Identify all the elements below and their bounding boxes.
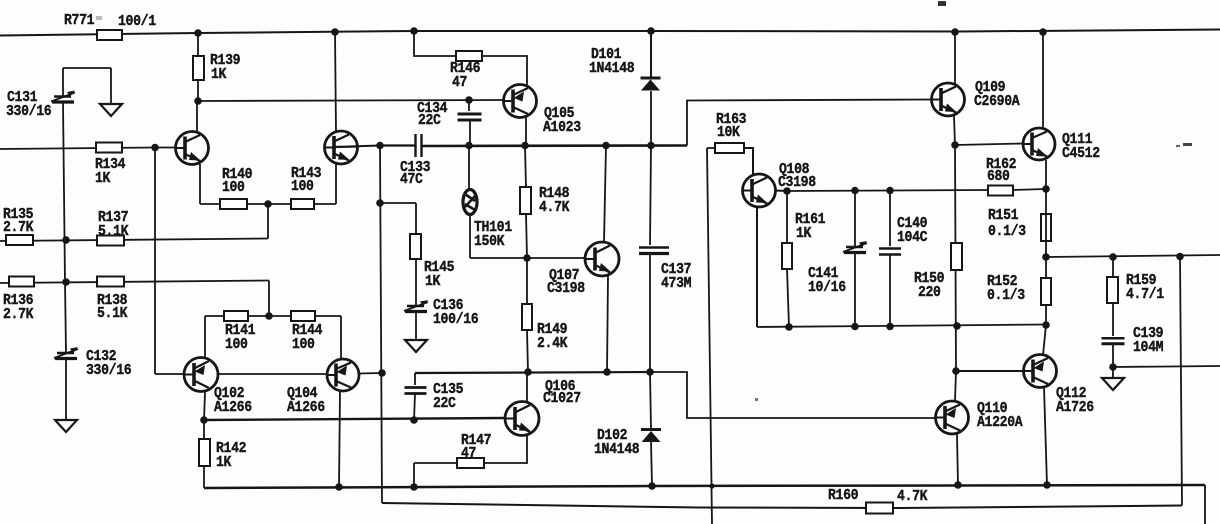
svg-text:1K: 1K: [95, 170, 110, 187]
svg-text:0.1/3: 0.1/3: [988, 223, 1026, 240]
svg-text:100: 100: [225, 336, 248, 353]
svg-text:1K: 1K: [211, 66, 226, 83]
svg-text:1N4148: 1N4148: [594, 441, 640, 458]
svg-text:C4512: C4512: [1062, 145, 1100, 162]
svg-text:C3198: C3198: [778, 174, 816, 191]
svg-text:47: 47: [461, 445, 476, 462]
svg-text:100: 100: [291, 178, 314, 195]
svg-text:5.1K: 5.1K: [97, 305, 128, 322]
svg-text:680: 680: [987, 168, 1010, 185]
svg-text:4.7/1: 4.7/1: [1126, 286, 1164, 303]
svg-text:1K: 1K: [425, 273, 440, 290]
svg-text:330/16: 330/16: [6, 103, 52, 120]
svg-text:R771: R771: [64, 12, 95, 29]
svg-text:A1726: A1726: [1056, 399, 1094, 416]
svg-text:104C: 104C: [897, 229, 928, 246]
svg-text:R160: R160: [828, 487, 859, 504]
svg-text:150K: 150K: [474, 233, 505, 250]
svg-text:100: 100: [292, 336, 315, 353]
svg-text:47: 47: [452, 74, 467, 91]
svg-text:104M: 104M: [1133, 339, 1164, 356]
svg-text:4.7K: 4.7K: [897, 488, 928, 505]
svg-text:100/16: 100/16: [433, 311, 479, 328]
svg-text:C1027: C1027: [543, 390, 581, 407]
svg-text:2.7K: 2.7K: [3, 306, 34, 323]
svg-text:10/16: 10/16: [808, 279, 846, 296]
svg-text:47C: 47C: [400, 171, 423, 188]
svg-text:2.4K: 2.4K: [537, 335, 568, 352]
svg-text:2.7K: 2.7K: [3, 219, 34, 236]
svg-text:5.1K: 5.1K: [98, 223, 129, 240]
svg-text:R151: R151: [988, 207, 1019, 224]
svg-text:1N4148: 1N4148: [589, 60, 635, 77]
svg-text:C2690A: C2690A: [974, 93, 1020, 110]
svg-text:1K: 1K: [796, 225, 811, 242]
svg-text:4.7K: 4.7K: [539, 199, 570, 216]
svg-text:A1266: A1266: [214, 399, 252, 416]
svg-text:C3198: C3198: [547, 280, 585, 297]
svg-text:22C: 22C: [418, 112, 441, 129]
svg-text:22C: 22C: [433, 395, 456, 412]
svg-text:A1023: A1023: [543, 119, 581, 136]
svg-text:100/1: 100/1: [118, 13, 156, 30]
svg-text:10K: 10K: [717, 124, 740, 141]
svg-text:473M: 473M: [661, 275, 692, 292]
svg-text:330/16: 330/16: [86, 362, 132, 379]
svg-text:1K: 1K: [216, 454, 231, 471]
svg-text:A1266: A1266: [287, 399, 325, 416]
svg-text:0.1/3: 0.1/3: [987, 287, 1025, 304]
svg-text:100: 100: [222, 179, 245, 196]
svg-text:220: 220: [918, 284, 941, 301]
svg-text:A1220A: A1220A: [977, 414, 1023, 431]
